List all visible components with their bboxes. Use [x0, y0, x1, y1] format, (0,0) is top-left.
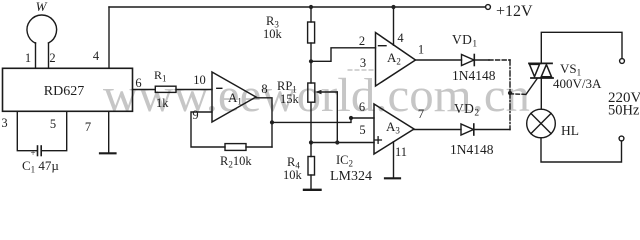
ground bar under R4	[304, 189, 321, 191]
triac VS1 top bar	[529, 62, 552, 64]
node A1out junction dot	[270, 120, 274, 124]
capacitor C1 plates	[37, 146, 39, 156]
svg-text:6: 6	[135, 76, 141, 90]
wire gate dash-dot vertical	[509, 60, 511, 130]
svg-text:R210k: R210k	[220, 154, 252, 170]
wire pin6 to R1	[133, 89, 156, 91]
svg-text:1: 1	[25, 51, 31, 65]
node X dot (R3/RP1 junction)	[309, 59, 313, 63]
svg-text:1N4148: 1N4148	[450, 142, 494, 157]
svg-text:5: 5	[359, 123, 365, 137]
wire lamp bottom loop	[541, 138, 622, 162]
wire R4 bottom lead	[310, 175, 312, 189]
node gate dot	[508, 91, 512, 95]
wire gate diagonal	[526, 79, 537, 95]
wire sensor lead pin2	[48, 43, 50, 68]
220V lower terminal	[619, 136, 624, 141]
RP1 wiper arrow	[318, 91, 337, 93]
svg-text:10: 10	[193, 73, 206, 87]
wire gate dashes to triac	[510, 93, 526, 96]
svg-text:7: 7	[418, 107, 424, 121]
wire signal bus to comparators	[272, 118, 351, 122]
wire pin5 down	[42, 111, 66, 150]
svg-text:10k: 10k	[283, 168, 303, 182]
node A2 pin4 rail dot	[391, 5, 395, 9]
220V upper terminal	[620, 59, 625, 64]
svg-text:2: 2	[49, 51, 55, 65]
svg-text:50Hz: 50Hz	[608, 103, 640, 119]
svg-text:4: 4	[397, 31, 404, 45]
svg-text:1: 1	[418, 43, 424, 57]
wire A3 pin11 to ground	[393, 142, 395, 178]
wire RP1 wiper down	[336, 92, 338, 143]
svg-text:RD627: RD627	[44, 84, 84, 99]
svg-text:C1 47µ: C1 47µ	[22, 158, 59, 175]
svg-text:15k: 15k	[280, 92, 300, 106]
triac VS1 left triangle	[530, 64, 540, 76]
wire A2 output to VD1	[416, 59, 462, 61]
wire VD2 cathode to corner	[474, 129, 510, 131]
wire R3 bottom lead	[310, 43, 312, 83]
node signal-pin6 dot	[349, 116, 353, 120]
minus sign A2 pin2	[379, 45, 387, 47]
triac VS1 right triangle	[541, 65, 551, 77]
wire R3 top lead	[310, 7, 312, 22]
wire pin9 feedback to R2	[191, 112, 225, 147]
wire VD1 cathode	[474, 59, 489, 61]
wire RP1 bottom lead	[310, 102, 312, 142]
wire R1 to pin10	[176, 89, 212, 91]
node wiper junction dot	[335, 140, 339, 144]
wire A2 pin4 power	[393, 7, 395, 45]
svg-text:+: +	[31, 148, 36, 158]
wire node X to A2 pin2	[311, 48, 376, 62]
svg-text:11: 11	[395, 145, 407, 159]
wire triac top lead	[541, 32, 622, 63]
node Y dot	[309, 140, 313, 144]
diode VD1	[462, 55, 475, 66]
svg-text:9: 9	[192, 108, 198, 122]
+12V terminal circle	[486, 5, 491, 10]
svg-text:8: 8	[261, 82, 267, 96]
RD627 module box	[3, 68, 133, 111]
wire node Y bus to A3 pin5	[311, 142, 374, 144]
svg-text:1k: 1k	[156, 96, 169, 110]
wire VD1 dashed continuation	[489, 59, 510, 61]
svg-text:400V/3A: 400V/3A	[553, 76, 602, 91]
svg-text:10k: 10k	[263, 27, 283, 41]
minus sign A1 pin10	[217, 87, 222, 89]
op-amp A1	[212, 72, 256, 122]
plus sign A3 pin5	[375, 137, 382, 144]
svg-text:3: 3	[360, 56, 366, 70]
op-amp A3	[374, 104, 414, 154]
potentiometer RP1 body	[308, 83, 315, 102]
wire triac bottom to lamp	[540, 78, 542, 109]
svg-text:5: 5	[50, 117, 56, 131]
wire A1 output pin8	[256, 98, 272, 147]
svg-text:4: 4	[93, 49, 100, 63]
svg-text:2: 2	[359, 34, 365, 48]
wire R2 to node	[246, 146, 272, 148]
wire A2 pin3 stub (faint)	[348, 69, 376, 71]
resistor R1 body	[155, 86, 176, 92]
sensor W balloon	[27, 15, 57, 43]
svg-text:LM324: LM324	[330, 169, 372, 184]
diode VD2	[461, 124, 474, 135]
wire A3 output to VD2	[414, 129, 461, 131]
resistor R2 body	[225, 144, 246, 151]
resistor R3 body	[308, 22, 315, 43]
triac VS1 bottom bar	[531, 77, 553, 79]
svg-text:1N4148: 1N4148	[452, 68, 496, 83]
wire pin4 to +12V rail	[108, 7, 110, 68]
svg-text:+12V: +12V	[496, 3, 533, 20]
svg-text:HL: HL	[561, 123, 579, 138]
wire to A3 pin6	[351, 117, 374, 119]
resistor R4 body	[308, 157, 315, 176]
wire pin3 down	[17, 111, 36, 150]
wire R4 top lead	[310, 143, 312, 157]
svg-text:W: W	[36, 0, 48, 14]
svg-text:3: 3	[1, 116, 7, 130]
node R3 rail dot	[309, 5, 313, 9]
lamp HL	[527, 109, 556, 138]
wire pin7 to ground	[108, 111, 110, 153]
svg-text:6: 6	[359, 100, 365, 114]
op-amp A2	[376, 33, 416, 87]
wire sensor lead pin1	[35, 43, 37, 69]
ground bar under pin7	[100, 152, 116, 154]
wire +12V rail	[109, 6, 485, 8]
ground bar under pin11	[385, 177, 400, 179]
svg-text:7: 7	[85, 120, 91, 134]
